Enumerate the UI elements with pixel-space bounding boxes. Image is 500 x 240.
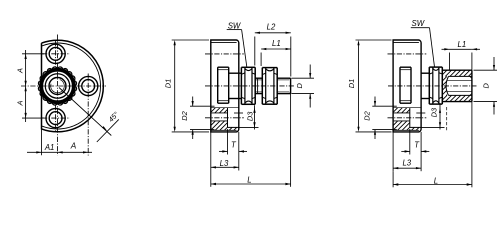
top hole vertical centerline — [55, 41, 57, 68]
top hole inner circle — [49, 47, 62, 60]
dimension L1 (middle) — [260, 53, 262, 67]
plate top chamfer line — [211, 42, 237, 44]
thread minor line top — [451, 79, 472, 81]
dimension T (right) — [409, 129, 411, 155]
counterbore step line — [227, 108, 229, 128]
sleeve bore with thread — [449, 75, 472, 77]
svg-text:L3: L3 — [402, 159, 411, 168]
dimension D3 (right) — [416, 112, 425, 114]
main axis centerline (right) — [388, 85, 477, 87]
dimension L (middle) — [210, 171, 212, 187]
plate bottom chamfer line (right) — [393, 129, 419, 131]
neck circle — [45, 74, 69, 98]
svg-text:A: A — [70, 142, 77, 151]
dimension L1 (right) — [449, 53, 451, 71]
bottom hole inner circle — [49, 112, 62, 125]
threaded stud — [255, 77, 262, 79]
bottom hole axis (right) — [388, 117, 427, 119]
hole top line — [211, 112, 228, 114]
45 degree callout — [59, 88, 111, 136]
hatch sliver below counterbore — [229, 127, 239, 130]
svg-text:D2: D2 — [180, 111, 189, 120]
hidden thread-depth line below sleeve — [446, 107, 448, 131]
hex SW (right view) — [429, 66, 442, 68]
dimension L2 — [254, 37, 256, 66]
hatch above hole — [211, 108, 228, 113]
knurled collar ring — [41, 70, 74, 103]
sleeve outline (sectioned) — [442, 69, 472, 71]
svg-text:L1: L1 — [272, 39, 281, 48]
dimension T (middle) — [227, 129, 229, 155]
plate top chamfer line (right) — [393, 42, 419, 44]
dimension L3 (middle) — [210, 132, 212, 171]
right hole inner circle — [82, 80, 95, 93]
bore chamfer top — [470, 76, 472, 78]
center bore circle — [49, 78, 66, 95]
top hole counterbore circle — [46, 44, 65, 63]
neck top line — [229, 72, 242, 74]
plate bottom chamfer line — [211, 129, 237, 131]
dimension L3 (right) — [392, 132, 394, 171]
right hole vertical centerline — [87, 74, 89, 156]
svg-text:L3: L3 — [220, 159, 229, 168]
svg-text:D1: D1 — [163, 79, 172, 88]
svg-text:L: L — [247, 176, 251, 185]
bottom hole vertical centerline — [55, 105, 57, 132]
flange plate outline (right view) — [393, 40, 421, 132]
thread run-out line — [257, 78, 259, 93]
vertical centerline — [57, 35, 59, 156]
svg-text:D1: D1 — [347, 79, 356, 88]
knurled collar (side view) — [218, 66, 229, 68]
dimension D1 — [172, 39, 209, 41]
bottom hole horizontal centerline — [42, 117, 70, 119]
dimension D (right, sleeve diameter) — [474, 69, 498, 71]
dimension L (right) — [392, 171, 394, 187]
flange outline (circle with flat left edge) — [42, 40, 104, 132]
dimension D2 — [190, 105, 215, 107]
thread minor line bottom — [451, 91, 472, 93]
top mounting hole axis — [205, 53, 244, 55]
dimension D2 (right) — [372, 105, 397, 107]
flange plate outline (side view) — [211, 40, 239, 132]
svg-text:SW: SW — [228, 21, 241, 30]
stud end cylinder — [277, 77, 290, 79]
dimension A (vertical spacing of holes) — [22, 53, 44, 55]
neck top line (right) — [421, 72, 429, 74]
thread circle (partial) — [51, 80, 65, 93]
knurled collar (right view) — [400, 66, 411, 68]
svg-text:A: A — [16, 100, 25, 106]
sleeve hatch left of bore — [442, 76, 447, 95]
neck bottom line (right) — [421, 98, 429, 100]
hex boss SW (nut 1) — [241, 66, 255, 68]
main axis centerline — [205, 85, 295, 87]
svg-text:SW: SW — [412, 19, 425, 28]
dimension D (stud diameter) — [292, 77, 315, 79]
flange rim chamfer circle — [42, 43, 101, 129]
svg-text:D3: D3 — [245, 111, 254, 121]
hole bottom line — [211, 120, 228, 122]
right hole counterbore circle — [79, 76, 98, 95]
dimension D1 (right) — [356, 39, 392, 41]
bore chamfer bottom — [470, 94, 472, 96]
horizontal centerline — [21, 85, 106, 87]
top hole axis (right) — [388, 53, 427, 55]
counterbore bottom edge — [228, 126, 239, 128]
svg-text:A: A — [16, 68, 25, 74]
thread start — [447, 80, 451, 91]
bottom mounting hole axis — [205, 117, 244, 119]
svg-text:D3: D3 — [430, 107, 439, 117]
sleeve hatch bottom band — [442, 95, 472, 101]
svg-text:D: D — [295, 82, 304, 88]
svg-text:A1: A1 — [44, 143, 55, 152]
svg-text:D2: D2 — [362, 111, 371, 120]
hex nut 2 — [262, 67, 277, 69]
hatch below hole — [211, 121, 228, 130]
dimension D3 — [234, 112, 243, 114]
dimension A1 and A (bottom) — [41, 129, 43, 156]
svg-text:L1: L1 — [458, 40, 467, 49]
neck bottom line — [229, 98, 242, 100]
svg-text:L: L — [434, 176, 438, 185]
svg-text:D: D — [481, 82, 490, 88]
knurled collar scalloped edge — [38, 67, 76, 105]
local section through bottom hole (right view) — [393, 107, 421, 109]
sleeve hatch top band — [442, 70, 472, 76]
section boundary line — [211, 107, 239, 109]
svg-text:L2: L2 — [267, 23, 276, 32]
bore closed end — [446, 76, 448, 95]
bottom hole counterbore circle — [46, 109, 65, 128]
top hole horizontal centerline — [42, 53, 70, 55]
